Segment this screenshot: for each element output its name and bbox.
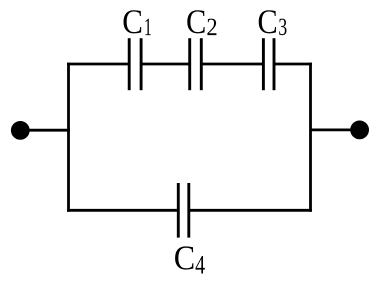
wire right vertical side <box>309 63 312 212</box>
capacitor C3 <box>263 38 274 90</box>
label C1 <box>123 10 150 35</box>
wire left terminal to loop <box>27 129 70 132</box>
wire top segment C3 to corner <box>274 63 312 66</box>
wire bottom segment corner to C4 <box>67 209 178 212</box>
capacitor C1 <box>129 38 141 90</box>
wire bottom segment C4 to corner <box>189 209 312 212</box>
wire left vertical side <box>67 63 70 212</box>
wire top segment corner to C1 <box>67 63 129 66</box>
right terminal dot <box>350 120 369 139</box>
label C3 <box>259 10 287 35</box>
capacitor C4 <box>178 183 189 238</box>
left terminal dot <box>11 121 30 140</box>
label C4 <box>175 246 205 273</box>
wire top segment C1 to C2 <box>141 63 189 66</box>
label C2 <box>187 10 216 35</box>
capacitor C2 <box>190 38 202 90</box>
wire right terminal <box>311 128 354 131</box>
wire top segment C2 to C3 <box>201 63 263 66</box>
